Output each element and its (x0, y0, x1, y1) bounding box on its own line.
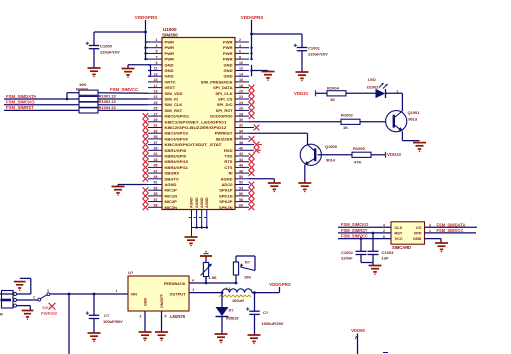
svg-text:1: 1 (12, 301, 14, 305)
svg-text:38: 38 (239, 141, 243, 145)
svg-text:1000uF/25V: 1000uF/25V (262, 321, 284, 326)
svg-text:PWR: PWR (165, 45, 175, 50)
svg-text:8: 8 (239, 55, 241, 59)
svg-text:SPK2N: SPK2N (219, 205, 233, 210)
svg-text:22: 22 (239, 95, 243, 99)
svg-text:4: 4 (192, 278, 194, 282)
svg-text:17: 17 (154, 84, 158, 88)
svg-text:100uH: 100uH (232, 298, 244, 303)
svg-text:GND: GND (144, 297, 148, 306)
svg-text:PWR: PWR (223, 57, 233, 62)
svg-text:PWR: PWR (223, 40, 233, 45)
svg-text:GND: GND (165, 62, 174, 67)
svg-text:50: 50 (239, 175, 243, 179)
svg-text:FSM_SIMCKO: FSM_SIMCKO (6, 100, 35, 105)
svg-text:C1001: C1001 (308, 46, 321, 51)
svg-text:FSM_SIMVCC: FSM_SIMVCC (341, 234, 368, 239)
svg-text:R1004: R1004 (327, 85, 340, 90)
svg-text:1: 1 (116, 289, 118, 293)
svg-text:FSM_SIMVCC: FSM_SIMVCC (437, 228, 464, 233)
svg-text:5: 5 (156, 50, 158, 54)
svg-text:KBC1/GPONET_LED/GPIO1: KBC1/GPONET_LED/GPIO1 (165, 119, 228, 124)
svg-text:KBC5/GPIO/TXD2T_STAT: KBC5/GPIO/TXD2T_STAT (165, 142, 223, 147)
svg-text:24: 24 (239, 101, 243, 105)
svg-text:Q1001: Q1001 (408, 110, 421, 115)
svg-text:ON/OFF: ON/OFF (160, 293, 164, 308)
svg-text:SIM_RST: SIM_RST (165, 108, 183, 113)
svg-text:DBGTX: DBGTX (165, 176, 179, 181)
svg-text:33: 33 (154, 129, 158, 133)
svg-text:13: 13 (154, 72, 158, 76)
svg-text:7: 7 (156, 55, 158, 59)
svg-text:100uF/50V: 100uF/50V (103, 319, 123, 324)
svg-text:43: 43 (154, 158, 158, 162)
svg-text:3: 3 (156, 44, 158, 48)
svg-text:6: 6 (383, 235, 385, 239)
svg-text:LM2576: LM2576 (170, 314, 186, 319)
svg-text:VDDGPRS: VDDGPRS (241, 15, 264, 20)
svg-text:SIM_CLK: SIM_CLK (165, 102, 183, 107)
svg-text:1: 1 (156, 38, 158, 42)
svg-text:DBGRX: DBGRX (165, 171, 180, 176)
svg-text:VCC: VCC (395, 236, 403, 241)
svg-text:SIM_VDD: SIM_VDD (165, 91, 183, 96)
svg-text:VDDGPRS: VDDGPRS (269, 282, 291, 287)
svg-text:VDDGPRS: VDDGPRS (135, 15, 158, 20)
svg-text:U1000: U1000 (163, 27, 177, 32)
svg-text:1.5K: 1.5K (209, 275, 217, 280)
svg-text:40: 40 (239, 147, 243, 151)
svg-text:GND: GND (413, 236, 422, 241)
svg-text:U?: U? (128, 270, 134, 275)
svg-text:VEXT: VEXT (165, 85, 176, 90)
svg-text:RTS: RTS (224, 159, 232, 164)
svg-text:3: 3 (12, 290, 14, 294)
svg-text:I/O: I/O (416, 225, 421, 230)
svg-text:55: 55 (154, 192, 158, 196)
svg-text:PWR: PWR (223, 51, 233, 56)
svg-text:KBC2/GPO-BUZZER/GPIO12: KBC2/GPO-BUZZER/GPIO12 (165, 125, 228, 130)
svg-text:26: 26 (239, 107, 243, 111)
svg-text:R1000: R1000 (353, 146, 366, 151)
svg-text:51: 51 (154, 181, 158, 185)
svg-text:TXD: TXD (224, 154, 232, 159)
svg-text:37: 37 (154, 141, 158, 145)
svg-text:GND: GND (224, 74, 233, 79)
svg-text:PWR: PWR (165, 51, 175, 56)
svg-text:220uF/10V: 220uF/10V (100, 50, 120, 55)
svg-text:SPI_RST: SPI_RST (216, 108, 233, 113)
svg-text:59: 59 (154, 204, 158, 208)
svg-text:31: 31 (154, 124, 158, 128)
svg-text:1K: 1K (330, 97, 335, 102)
svg-text:RST: RST (395, 231, 403, 236)
svg-text:KBC3/GPO3: KBC3/GPO3 (165, 131, 189, 136)
svg-text:47K: 47K (354, 159, 361, 164)
svg-text:AGND: AGND (165, 182, 177, 187)
svg-text:FSM_SIMDATA: FSM_SIMDATA (437, 222, 466, 227)
svg-text:1nF: 1nF (382, 256, 390, 261)
svg-text:LED: LED (368, 77, 376, 82)
svg-text:29: 29 (154, 118, 158, 122)
svg-text:SPK1N: SPK1N (219, 193, 233, 198)
svg-text:VPP: VPP (414, 231, 422, 236)
svg-text:32: 32 (239, 124, 243, 128)
svg-text:R1002 22: R1002 22 (99, 99, 117, 104)
svg-text:VDD33: VDD33 (294, 91, 308, 96)
svg-text:2: 2 (12, 296, 14, 300)
svg-text:RI: RI (228, 171, 232, 176)
svg-text:48: 48 (239, 169, 243, 173)
svg-text:4: 4 (383, 223, 385, 227)
svg-text:R1000: R1000 (76, 86, 89, 91)
svg-text:10K: 10K (244, 274, 251, 279)
svg-text:28: 28 (239, 112, 243, 116)
svg-text:KBR2/GPI9: KBR2/GPI9 (165, 154, 187, 159)
svg-text:2: 2 (33, 295, 35, 299)
svg-text:46: 46 (239, 164, 243, 168)
svg-text:SIMCARD: SIMCARD (392, 245, 411, 250)
svg-text:PWR: PWR (165, 40, 175, 45)
svg-text:CTS: CTS (224, 165, 232, 170)
svg-text:SPI_CLK: SPI_CLK (215, 91, 232, 96)
svg-text:C?: C? (104, 313, 110, 318)
svg-text:9: 9 (156, 61, 158, 65)
svg-text:R1001 22: R1001 22 (99, 94, 117, 99)
svg-text:GND: GND (165, 74, 174, 79)
svg-text:52: 52 (239, 181, 243, 185)
svg-text:D1002: D1002 (367, 85, 379, 90)
svg-text:58: 58 (239, 198, 243, 202)
svg-text:FEEDBACK: FEEDBACK (164, 281, 186, 286)
svg-text:21: 21 (154, 95, 158, 99)
svg-text:KBC0/GPIO1: KBC0/GPIO1 (165, 114, 190, 119)
svg-text:BUZZER: BUZZER (216, 136, 232, 141)
svg-text:C?: C? (263, 310, 269, 315)
svg-text:42: 42 (239, 152, 243, 156)
svg-text:19: 19 (154, 90, 158, 94)
svg-text:AGND: AGND (195, 197, 199, 208)
svg-text:C1000: C1000 (100, 44, 113, 49)
svg-text:49: 49 (154, 175, 158, 179)
svg-text:DCD/GPIO0: DCD/GPIO0 (210, 114, 233, 119)
svg-text:SPI_D/C: SPI_D/C (217, 102, 233, 107)
svg-text:AGND: AGND (205, 197, 209, 208)
svg-text:45: 45 (154, 164, 158, 168)
svg-text:10: 10 (239, 61, 243, 65)
svg-text:1K: 1K (343, 125, 348, 130)
svg-text:16: 16 (239, 78, 243, 82)
svg-text:44: 44 (239, 158, 243, 162)
svg-text:56: 56 (239, 192, 243, 196)
svg-text:MIC2P: MIC2P (165, 199, 178, 204)
svg-text:VDD50: VDD50 (351, 328, 365, 333)
svg-text:FSM_SIMVCC: FSM_SIMVCC (110, 87, 138, 92)
svg-text:SPK2P: SPK2P (219, 199, 233, 204)
svg-text:6: 6 (239, 50, 241, 54)
svg-text:CLK: CLK (395, 225, 403, 230)
svg-text:C1002: C1002 (341, 250, 354, 255)
svg-text:9014: 9014 (326, 158, 336, 163)
svg-text:RXD: RXD (224, 148, 233, 153)
svg-text:R?: R? (245, 260, 251, 264)
svg-text:R: R (0, 313, 3, 317)
svg-text:PWRKEY: PWRKEY (215, 131, 233, 136)
svg-text:OUTPUT: OUTPUT (170, 291, 187, 296)
svg-text:ADC0: ADC0 (221, 182, 233, 187)
svg-text:AGND: AGND (221, 176, 233, 181)
svg-text:SIM300: SIM300 (162, 32, 178, 37)
svg-text:220uF/10V: 220uF/10V (308, 52, 328, 57)
svg-text:35: 35 (154, 135, 158, 139)
svg-text:SIM_PRESENCE: SIM_PRESENCE (201, 79, 233, 84)
svg-text:KBR4/GPI11: KBR4/GPI11 (165, 165, 189, 170)
svg-text:GND: GND (165, 68, 174, 73)
svg-text:54: 54 (239, 186, 243, 190)
svg-text:2: 2 (397, 89, 399, 93)
svg-text:KBC4/GPO0: KBC4/GPO0 (165, 136, 189, 141)
svg-text:3: 3 (140, 315, 142, 319)
svg-text:SPK1P: SPK1P (219, 188, 233, 193)
svg-text:VIN: VIN (131, 291, 138, 296)
svg-text:18: 18 (239, 84, 243, 88)
svg-text:4: 4 (239, 44, 241, 48)
svg-text:60: 60 (239, 204, 243, 208)
svg-text:14: 14 (239, 72, 243, 76)
svg-text:R1002: R1002 (341, 112, 354, 117)
svg-text:KBR3/GPI10: KBR3/GPI10 (165, 159, 189, 164)
svg-text:VDD33: VDD33 (387, 152, 401, 157)
svg-text:C1003: C1003 (382, 250, 395, 255)
svg-text:220nF: 220nF (341, 256, 353, 261)
svg-text:IN5819: IN5819 (226, 315, 239, 320)
svg-text:MIC1P: MIC1P (165, 188, 178, 193)
svg-text:23: 23 (154, 101, 158, 105)
svg-text:36: 36 (239, 135, 243, 139)
svg-text:30: 30 (239, 118, 243, 122)
svg-text:VRTC: VRTC (165, 79, 176, 84)
svg-text:SPI_DATA: SPI_DATA (213, 85, 232, 90)
svg-text:SPI_CS: SPI_CS (218, 97, 233, 102)
svg-text:5: 5 (165, 315, 167, 319)
svg-text:D?: D? (229, 308, 235, 313)
svg-text:PWR: PWR (165, 57, 175, 62)
svg-text:39: 39 (154, 147, 158, 151)
svg-text:57: 57 (154, 198, 158, 202)
svg-text:2: 2 (193, 288, 195, 292)
svg-text:GND: GND (224, 62, 233, 67)
svg-text:FSM_SIMDATA: FSM_SIMDATA (6, 94, 36, 99)
svg-text:53: 53 (154, 186, 158, 190)
svg-text:25: 25 (154, 107, 158, 111)
svg-text:AGND: AGND (200, 197, 204, 208)
svg-text:3: 3 (429, 223, 431, 227)
svg-text:3: 3 (47, 289, 49, 293)
svg-text:41: 41 (154, 152, 158, 156)
svg-text:PWR: PWR (223, 45, 233, 50)
svg-text:9013: 9013 (408, 117, 418, 122)
svg-text:KBR1/GPI8: KBR1/GPI8 (165, 148, 187, 153)
svg-text:PWRSW: PWRSW (41, 311, 57, 316)
svg-text:AGND: AGND (190, 197, 194, 208)
svg-text:15: 15 (154, 78, 158, 82)
svg-text:MIC2N: MIC2N (165, 205, 178, 210)
svg-text:Q1000: Q1000 (325, 144, 338, 149)
svg-text:FSM_SIMCKO: FSM_SIMCKO (341, 222, 369, 227)
svg-text:20: 20 (239, 90, 243, 94)
svg-text:2: 2 (383, 229, 385, 233)
svg-text:47: 47 (154, 169, 158, 173)
svg-text:FSM_SIMRST: FSM_SIMRST (6, 105, 34, 110)
svg-text:2: 2 (239, 38, 241, 42)
svg-text:MIC1N: MIC1N (165, 193, 178, 198)
svg-text:1: 1 (429, 229, 431, 233)
svg-text:34: 34 (239, 129, 243, 133)
svg-text:R1003 22: R1003 22 (99, 105, 117, 110)
svg-text:GND: GND (224, 68, 233, 73)
svg-text:12: 12 (239, 67, 243, 71)
svg-text:11: 11 (154, 67, 158, 71)
svg-text:SIM_IO: SIM_IO (165, 97, 179, 102)
svg-text:27: 27 (154, 112, 158, 116)
svg-text:FSM_SIMRST: FSM_SIMRST (341, 228, 368, 233)
